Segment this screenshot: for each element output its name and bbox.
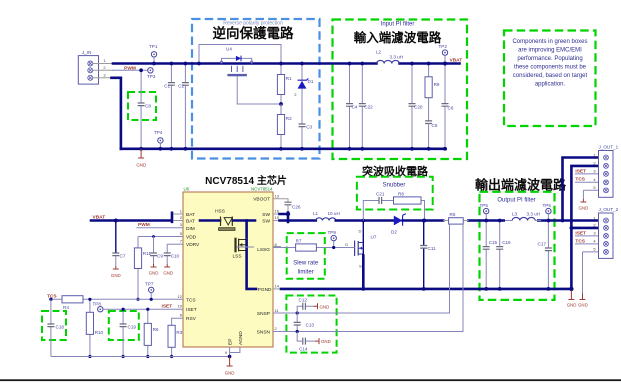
svg-text:C13: C13 xyxy=(306,323,315,328)
svg-text:GND: GND xyxy=(136,163,146,168)
wire PWM to DIM pin (thin) xyxy=(136,227,183,229)
svg-text:application.: application. xyxy=(535,82,566,88)
capacitor C13 xyxy=(296,313,298,332)
resistor R9 xyxy=(428,64,430,121)
svg-text:S: S xyxy=(359,264,362,269)
svg-text:3.3 uH: 3.3 uH xyxy=(527,212,541,217)
capacitor C10 xyxy=(166,244,168,264)
svg-text:TP5: TP5 xyxy=(480,203,489,208)
svg-text:GND: GND xyxy=(111,273,121,278)
capacitor C15 xyxy=(485,221,487,289)
svg-text:AGND: AGND xyxy=(238,331,244,345)
svg-text:3.3 uH: 3.3 uH xyxy=(390,55,404,60)
svg-text:ISET: ISET xyxy=(186,307,197,313)
wire output+ to J_OUT_1 pin1 (thick) xyxy=(563,158,599,221)
svg-text:C1: C1 xyxy=(164,84,170,89)
svg-text:Components in green boxes: Components in green boxes xyxy=(512,39,587,45)
svg-text:12: 12 xyxy=(178,294,183,299)
svg-text:LSS: LSS xyxy=(232,254,241,260)
svg-text:NCV78514: NCV78514 xyxy=(251,187,273,192)
svg-text:R10: R10 xyxy=(95,330,104,335)
svg-text:these components must be: these components must be xyxy=(514,65,587,71)
wire return J_OUT_1 pin2 down to PGND rail (thick) xyxy=(571,166,598,289)
svg-text:輸出端濾波電路: 輸出端濾波電路 xyxy=(475,178,567,193)
transistor U4 (reverse protection PMOS) xyxy=(220,47,253,77)
resistor R2 xyxy=(280,104,282,149)
resistor R7 (slew rate) xyxy=(296,244,317,251)
svg-text:TP8: TP8 xyxy=(93,302,102,307)
blue dashed box: reverse polarity protection section xyxy=(192,19,320,159)
capacitor C11 xyxy=(423,221,425,289)
svg-text:GND: GND xyxy=(567,303,577,308)
chip pin labels left xyxy=(186,212,200,322)
bottom page border line xyxy=(0,379,621,381)
svg-text:SNSP: SNSP xyxy=(257,311,270,317)
capacitor C9 xyxy=(153,237,155,265)
green dashed box: C19 xyxy=(109,311,139,340)
svg-text:R9: R9 xyxy=(434,82,440,87)
wire SNSP stub xyxy=(273,312,297,314)
capacitor C5 xyxy=(425,121,432,124)
svg-text:GND: GND xyxy=(578,303,588,308)
capacitor C12 xyxy=(296,311,299,314)
svg-text:ISET: ISET xyxy=(575,168,586,174)
svg-text:Output PI filter: Output PI filter xyxy=(497,198,535,204)
wire VBAT top rail (thick) xyxy=(113,62,377,65)
svg-text:13: 13 xyxy=(275,194,280,199)
green dashed box: C8 xyxy=(128,92,156,120)
wire pin3 to ground rail (thick) xyxy=(112,78,121,149)
test point TP9 xyxy=(331,235,336,240)
wire PWM from pin2 (thin) xyxy=(112,69,148,71)
wire ground bottom rail top-section (thick) xyxy=(121,148,446,151)
capacitor C20 xyxy=(411,64,413,149)
resistor R3 (RSV) xyxy=(172,318,183,356)
J_OUT_1 pin4 TCS stub xyxy=(575,181,599,183)
capacitor C6 xyxy=(444,64,446,149)
svg-text:C12: C12 xyxy=(299,298,308,303)
svg-text:C6: C6 xyxy=(448,106,454,111)
diode D2 (freewheel zener) xyxy=(391,214,406,235)
svg-text:SW: SW xyxy=(262,219,270,225)
svg-text:TCS: TCS xyxy=(186,297,196,303)
resistor R10 xyxy=(89,299,91,356)
svg-text:C7: C7 xyxy=(120,254,126,259)
wire PGND power ground rail (thick) xyxy=(273,288,281,290)
svg-text:HSS: HSS xyxy=(215,209,225,215)
inductor L2 3.3 uH xyxy=(377,60,400,63)
svg-text:R8: R8 xyxy=(398,191,404,196)
svg-text:L1: L1 xyxy=(313,211,319,216)
test point TP6 xyxy=(546,208,551,213)
svg-text:J_OUT_1: J_OUT_1 xyxy=(599,145,619,150)
svg-text:EP: EP xyxy=(228,339,234,345)
wire sense lines from R5 to SNSP/SNSN (thin) xyxy=(297,224,449,313)
svg-text:J_IN: J_IN xyxy=(82,50,91,55)
capacitor C18 xyxy=(50,299,52,356)
svg-text:G: G xyxy=(345,242,348,247)
svg-text:C3: C3 xyxy=(306,125,312,130)
svg-text:TP1: TP1 xyxy=(149,44,158,49)
wire VDRV (thin) xyxy=(167,243,183,245)
svg-text:R3: R3 xyxy=(176,330,182,335)
resistor R4 xyxy=(62,296,83,303)
svg-text:TCS: TCS xyxy=(575,177,585,183)
wire analog ground rail (thin) xyxy=(51,356,230,358)
inductor L1 10 uH xyxy=(316,218,336,221)
svg-text:PWM: PWM xyxy=(124,65,136,71)
wire SNSN stub xyxy=(273,331,297,333)
resistor R8 xyxy=(394,197,422,204)
test point TP2 xyxy=(442,50,447,55)
wire gate loop over U4 (thin) xyxy=(199,45,281,64)
svg-text:C18: C18 xyxy=(56,325,65,330)
wire J_OUT_2 pin2 (thick) xyxy=(571,227,598,230)
transistor U7 (low-side FET) xyxy=(345,221,377,269)
svg-text:10 uH: 10 uH xyxy=(328,211,340,216)
svg-text:Reverse polarity protection: Reverse polarity protection xyxy=(223,21,283,27)
junction at PGND rail corner xyxy=(569,287,573,291)
svg-text:C8: C8 xyxy=(145,104,151,109)
svg-text:limiter: limiter xyxy=(298,270,314,276)
svg-text:TP4: TP4 xyxy=(154,130,163,135)
svg-text:considered, based on target: considered, based on target xyxy=(513,73,588,79)
svg-text:C26: C26 xyxy=(292,205,301,210)
svg-text:L2: L2 xyxy=(376,50,382,55)
capacitor C4 xyxy=(349,64,351,149)
capacitor C21 xyxy=(379,197,382,204)
green dashed box: slew rate limiter xyxy=(287,233,325,279)
resistor R1 xyxy=(280,64,282,105)
transistor LSS inside chip xyxy=(232,238,246,260)
svg-text:R1: R1 xyxy=(286,76,292,81)
svg-text:GND: GND xyxy=(321,339,331,344)
svg-text:C21: C21 xyxy=(376,191,385,196)
green dashed box: C18 xyxy=(42,311,66,340)
svg-text:U7: U7 xyxy=(371,235,377,240)
svg-text:C9: C9 xyxy=(157,254,163,259)
svg-text:are improving EMC/EMI: are improving EMC/EMI xyxy=(518,48,582,54)
capacitor C16 xyxy=(499,221,501,289)
green dashed box: EMC note xyxy=(504,31,596,127)
resistor R11 (VDD to TCS) xyxy=(137,237,139,300)
J_OUT_1 pin3 ISET stub xyxy=(575,173,599,175)
capacitor C17 xyxy=(547,221,549,289)
svg-text:Snubber: Snubber xyxy=(383,183,406,189)
test point TP3 xyxy=(148,68,153,73)
svg-text:U6: U6 xyxy=(184,187,190,192)
svg-text:PGND: PGND xyxy=(258,287,272,293)
svg-text:TP7: TP7 xyxy=(145,282,154,287)
J_OUT_1 pin5 to ground xyxy=(583,190,598,199)
connector J_IN xyxy=(78,50,113,84)
svg-text:VDRV: VDRV xyxy=(186,242,200,248)
capacitor C14 xyxy=(296,330,299,333)
test point TP5 xyxy=(484,208,489,213)
resistor R5 (current sense, in series) xyxy=(468,219,598,222)
green dashed box: C12 C13 C14 sense filter xyxy=(286,296,336,353)
note text xyxy=(512,39,587,88)
ground below chip EP xyxy=(227,357,233,367)
svg-text:TCS: TCS xyxy=(575,238,585,244)
test point TP1 xyxy=(151,52,156,57)
svg-text:BAT: BAT xyxy=(186,212,195,218)
svg-text:D1: D1 xyxy=(308,79,314,84)
test point TP8 + ISET wire xyxy=(98,307,103,312)
svg-text:D2: D2 xyxy=(391,230,397,235)
svg-text:C19: C19 xyxy=(128,325,137,330)
wire LSSG gate (thin) xyxy=(237,246,254,248)
svg-text:C16: C16 xyxy=(502,240,511,245)
test point TP4 xyxy=(158,138,163,143)
svg-text:C4: C4 xyxy=(352,105,358,110)
svg-text:NCV78514 主芯片: NCV78514 主芯片 xyxy=(205,174,287,187)
svg-text:R7: R7 xyxy=(296,239,302,244)
svg-text:SW: SW xyxy=(262,212,270,218)
svg-text:C2: C2 xyxy=(178,84,184,89)
svg-text:ISET: ISET xyxy=(575,230,586,236)
svg-text:Slew rate: Slew rate xyxy=(293,261,319,267)
svg-text:R5: R5 xyxy=(450,212,456,217)
svg-text:GND: GND xyxy=(149,271,159,276)
test point TP7 xyxy=(149,287,154,292)
capacitor C2 xyxy=(184,64,186,149)
svg-text:VDD: VDD xyxy=(186,235,197,241)
svg-text:TP2: TP2 xyxy=(439,44,448,49)
op-amp U6 NCV78514 chip body xyxy=(183,192,273,347)
capacitor C1 xyxy=(170,64,172,149)
zener diode D1 xyxy=(294,64,314,125)
green dashed box: snubber xyxy=(357,177,433,210)
svg-text:BAT: BAT xyxy=(186,219,195,225)
svg-text:RSV: RSV xyxy=(186,316,197,322)
svg-text:L3: L3 xyxy=(512,212,518,217)
svg-text:LSSG: LSSG xyxy=(257,247,270,253)
svg-text:R4: R4 xyxy=(63,305,69,310)
wire LSSG through R7 to gate (thin) xyxy=(273,247,355,249)
capacitor C7 xyxy=(114,219,118,223)
svg-text:TP6: TP6 xyxy=(543,203,552,208)
svg-text:TP9: TP9 xyxy=(328,230,337,235)
svg-text:C22: C22 xyxy=(364,105,373,110)
svg-text:C15: C15 xyxy=(489,240,498,245)
svg-text:D: D xyxy=(359,229,362,234)
wire VDD (thin) xyxy=(138,236,183,238)
svg-text:C17: C17 xyxy=(538,242,547,247)
svg-text:14: 14 xyxy=(275,283,280,288)
svg-text:GND: GND xyxy=(579,206,589,211)
svg-text:ISET: ISET xyxy=(162,304,173,310)
svg-text:C5: C5 xyxy=(432,123,438,128)
green dashed box: input PI filter section xyxy=(333,20,468,160)
resistor R6 xyxy=(147,309,149,356)
svg-text:C14: C14 xyxy=(299,347,308,352)
svg-text:U4: U4 xyxy=(226,47,232,52)
green dashed box: output PI filter xyxy=(480,192,555,300)
wire SW pins to switch node (thick) xyxy=(273,214,280,221)
capacitor C22 xyxy=(361,64,363,149)
connector J_OUT_1 xyxy=(599,151,614,198)
capacitor C3 xyxy=(299,124,306,127)
svg-text:輸入端濾波電路: 輸入端濾波電路 xyxy=(354,30,442,45)
wire U4 gate to divider (thin) xyxy=(237,76,281,104)
chip pin numbers xyxy=(178,209,228,356)
ground from J_OUT_2 pin5 xyxy=(583,252,599,294)
capacitor C26 (bootstrap) xyxy=(273,199,288,212)
svg-text:VBAT: VBAT xyxy=(450,58,463,64)
svg-text:C11: C11 xyxy=(428,246,437,251)
svg-text:C20: C20 xyxy=(414,105,423,110)
J_OUT_2 pin3 ISET stub xyxy=(575,235,599,237)
svg-text:GND: GND xyxy=(225,371,235,376)
wire EP/AGND to ground xyxy=(230,347,240,357)
ground at PGND rail corner xyxy=(568,291,574,300)
svg-text:10: 10 xyxy=(178,304,183,309)
svg-text:逆向保護電路: 逆向保護電路 xyxy=(213,25,294,41)
svg-text:R6: R6 xyxy=(153,327,159,332)
svg-text:R2: R2 xyxy=(286,116,292,121)
ground below C7 xyxy=(113,266,119,269)
svg-text:SNSN: SNSN xyxy=(257,330,271,336)
J_OUT_2 pin4 TCS stub xyxy=(575,243,599,245)
chip pin labels right xyxy=(253,197,272,336)
transistor HSS inside chip xyxy=(200,209,235,231)
inductor L3 3.3 uH xyxy=(505,218,537,222)
svg-text:J_OUT_2: J_OUT_2 xyxy=(599,207,619,212)
capacitor C19 xyxy=(122,309,124,356)
connector J_OUT_2 xyxy=(599,213,614,258)
svg-text:DIM: DIM xyxy=(186,226,195,232)
capacitor C8 (PWM filter) xyxy=(140,70,142,149)
svg-text:C10: C10 xyxy=(171,254,180,259)
svg-text:GND: GND xyxy=(163,271,173,276)
thick wire HSS to SW and down to LSS xyxy=(233,219,255,222)
svg-text:TP3: TP3 xyxy=(147,74,156,79)
snubber: wire up and over (thin) xyxy=(363,201,424,221)
wire VBAT to BAT pins (thick) xyxy=(91,213,172,222)
svg-text:Input PI filter: Input PI filter xyxy=(381,22,415,28)
svg-text:performance. Populating: performance. Populating xyxy=(517,56,582,62)
svg-text:VBOOT: VBOOT xyxy=(253,197,270,203)
svg-text:PWM: PWM xyxy=(138,222,150,228)
ground symbol below C8 xyxy=(138,149,144,158)
svg-text:GND: GND xyxy=(320,304,330,309)
